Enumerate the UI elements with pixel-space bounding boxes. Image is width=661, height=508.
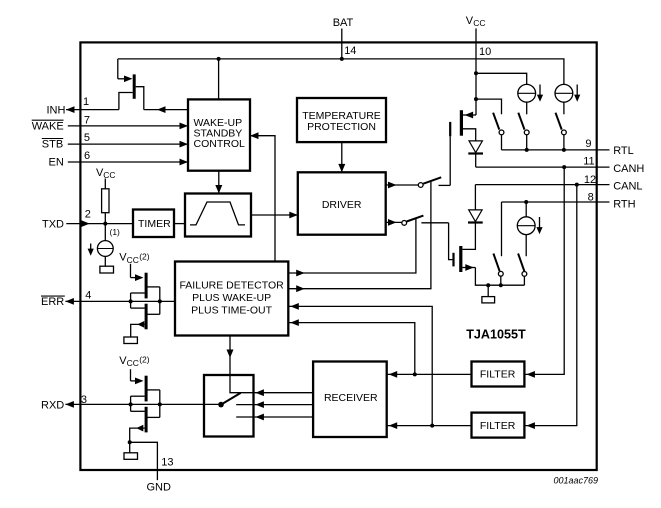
ground symbol ERR stage (124, 337, 137, 344)
switch S8 mux selector (218, 393, 241, 408)
svg-text:PROTECTION: PROTECTION (307, 121, 376, 133)
outer IC boundary box (80, 42, 596, 470)
junction S5 on RTL rail (562, 148, 566, 152)
wire D1 to CANH rail (475, 154, 477, 168)
svg-text:STB: STB (42, 139, 63, 151)
wire TXD node to current source (104, 224, 106, 241)
wire EN pin line with arrow (68, 159, 188, 166)
junction RXD ground branch (128, 440, 132, 444)
svg-text:3: 3 (81, 394, 87, 406)
wire INH pin line (66, 106, 119, 113)
svg-text:GND: GND (147, 481, 172, 493)
wire RTH to current source I4 (525, 202, 527, 217)
svg-text:TXD: TXD (42, 218, 64, 230)
wire S1 to Q2 gate (449, 136, 451, 185)
ground symbol TXD source (100, 266, 114, 273)
wire FD output to S2 lever with arrow (288, 219, 416, 277)
svg-text:FAILURE DETECTOR: FAILURE DETECTOR (179, 279, 284, 291)
junction CANH filter tap (562, 165, 566, 169)
current source I4 on RTH (517, 217, 535, 235)
svg-text:CC: CC (473, 18, 485, 28)
wire ERR node line (65, 298, 175, 305)
wire wake-up to slew block with arrow (215, 171, 222, 194)
current source I2 (518, 84, 536, 102)
wire STB pin line with arrow (68, 141, 188, 148)
junction FD CANH sense tap (413, 372, 417, 376)
svg-text:RTH: RTH (613, 198, 635, 210)
svg-text:TIMER: TIMER (138, 218, 171, 230)
svg-text:CONTROL: CONTROL (194, 138, 245, 150)
wire wake-up block top feed (218, 59, 220, 100)
wire RXD node line (65, 401, 221, 408)
wire temp protection to driver with arrow (338, 142, 345, 172)
wire CANL to filter2 with arrow (524, 185, 576, 429)
transistor Q1 INH driver (118, 59, 144, 110)
svg-text:1: 1 (83, 96, 89, 108)
transistor Q2 CANH high-side (450, 110, 476, 141)
block DRIVER (298, 172, 386, 234)
node VCC(2) label RXD (119, 355, 150, 369)
svg-text:(2): (2) (139, 355, 150, 365)
wire VCC to resistor (104, 179, 106, 189)
wire VCC to current source I2 (476, 73, 527, 84)
svg-text:PLUS WAKE-UP: PLUS WAKE-UP (192, 292, 271, 304)
wire mux input bottom with arrow (236, 414, 313, 421)
arrow current direction I1 (88, 244, 94, 256)
block FILTER 1 (472, 362, 525, 387)
junction VCC branch lower (474, 97, 478, 101)
wire TIMER to slew block (174, 223, 185, 225)
svg-text:CANL: CANL (613, 181, 642, 193)
wire CANH rail pin 11 (476, 166, 610, 168)
wire TXD pin line with arrow (66, 220, 133, 227)
svg-text:FILTER: FILTER (480, 369, 516, 381)
svg-text:001aac769: 001aac769 (553, 475, 598, 485)
switch S5 on RTL (556, 113, 567, 150)
junction ground tap (486, 283, 490, 287)
svg-text:EN: EN (49, 157, 64, 169)
wire failure-detector to wake-up feedback with arrow (250, 132, 275, 261)
junction CANL filter tap (575, 183, 579, 187)
switch S7 on RTH (518, 254, 527, 286)
wire I4 to switch S7 contact (525, 235, 527, 257)
wire ground stem (487, 285, 489, 296)
wire Q3 source to ground rail (475, 268, 524, 286)
switch S2 driver CANL (402, 216, 449, 226)
wire CANL sense into FD with arrow (288, 303, 432, 426)
svg-text:CC: CC (127, 358, 139, 368)
wire filter1 to receiver with arrow (387, 371, 472, 378)
switch S1 driver CANH (418, 177, 450, 187)
wire FD to mux control with arrow (227, 336, 241, 393)
junction wake-up feed (217, 57, 221, 61)
wire VCC pin 10 stem (475, 28, 477, 73)
junction TXD node (103, 222, 107, 226)
svg-text:(2): (2) (139, 251, 150, 261)
diode D1 CANH (468, 141, 483, 154)
wire VCC vertical to Q2 drain (475, 73, 477, 115)
wire RTL rail pin 9 (502, 149, 610, 151)
wire BAT pin 14 stem (341, 29, 343, 59)
wire WAKE pin line with arrow (68, 123, 188, 130)
node STB label with overline (42, 139, 63, 151)
wire slew block to driver with arrow (251, 212, 298, 219)
block RECEIVER (313, 362, 387, 438)
arrow current direction I2 (537, 85, 543, 102)
transistor Q3 CANL low-side (454, 246, 476, 272)
junction FD CANL sense tap (430, 424, 434, 428)
wire CANH to filter1 with arrow (524, 167, 564, 378)
transistor pair Q5 RXD push-pull (130, 369, 160, 453)
wire VCC branch to switch S3 contact (476, 99, 502, 114)
wire CANL rail to diode D2 (474, 185, 476, 210)
wire S2 to Q3 gate (449, 223, 453, 260)
wire RTH rail to switch S6 contact (501, 202, 503, 256)
block FAILURE DETECTOR (175, 262, 288, 336)
switch S4 on RTL (518, 113, 529, 150)
ground symbol RXD stage (124, 453, 138, 460)
svg-text:CC: CC (127, 255, 139, 265)
current source I3 wake-up (555, 84, 573, 102)
node VCC label top (466, 15, 486, 28)
svg-text:8: 8 (588, 191, 594, 203)
svg-text:RXD: RXD (41, 399, 64, 411)
transistor pair Q4 ERR push-pull (131, 264, 160, 337)
resistor R1 (102, 189, 109, 213)
wire RTH rail pin 8 (502, 201, 610, 203)
block FILTER 2 (472, 413, 525, 438)
svg-text:RTL: RTL (613, 145, 634, 157)
wire mux input top with arrow (237, 389, 313, 396)
junction RXD node left (129, 402, 133, 406)
svg-text:WAKE: WAKE (32, 120, 64, 132)
junction VCC branch upper (474, 71, 478, 75)
wire BAT rail horizontal (118, 59, 564, 85)
diode D2 CANL (468, 210, 483, 223)
junction RXD node right (158, 402, 162, 406)
current source I1 on TXD (97, 241, 113, 257)
wire CANH sense into FD with arrow (288, 319, 415, 374)
svg-text:6: 6 (84, 150, 90, 162)
svg-text:10: 10 (479, 46, 491, 58)
svg-text:INH: INH (47, 104, 66, 116)
junction ERR node right (158, 299, 162, 303)
svg-text:RECEIVER: RECEIVER (324, 392, 378, 404)
svg-text:CANH: CANH (613, 163, 644, 175)
arrow current direction I3 (574, 85, 580, 102)
block slew-rate symbol (185, 194, 251, 237)
wire CANL rail pin 12 (475, 184, 609, 186)
node WAKE label with overline (32, 120, 64, 132)
wire wakeup-to-Q1 with arrow (144, 106, 188, 113)
svg-text:4: 4 (85, 290, 91, 302)
svg-text:9: 9 (585, 138, 591, 150)
node VCC label above resistor (96, 167, 116, 180)
svg-text:13: 13 (161, 456, 173, 468)
junction S4 on RTL rail (525, 148, 529, 152)
svg-text:BAT: BAT (333, 17, 354, 29)
svg-text:11: 11 (583, 155, 594, 167)
node ERR label with overline (41, 296, 65, 308)
svg-text:(1): (1) (110, 227, 121, 237)
svg-text:DRIVER: DRIVER (322, 199, 362, 211)
svg-text:7: 7 (84, 115, 90, 127)
block TEMPERATURE PROTECTION (297, 98, 386, 142)
svg-text:TJA1055T: TJA1055T (466, 328, 526, 342)
wire D2 to Q3 drain (462, 223, 475, 250)
switch S6 on RTH (493, 254, 503, 286)
wire GND pin 13 (130, 442, 158, 480)
wire mux input middle with arrow (236, 401, 313, 408)
block output mux (204, 375, 254, 437)
block TIMER (133, 210, 174, 238)
node VCC(2) label ERR (119, 251, 150, 265)
wire filter2 to receiver with arrow (387, 422, 472, 429)
wire FD output to S1 lever with arrow (288, 181, 431, 292)
svg-text:12: 12 (584, 174, 596, 186)
wire I2 to switch S4 contact (526, 102, 528, 114)
svg-text:FILTER: FILTER (480, 420, 516, 432)
arrow current direction I4 (536, 217, 542, 234)
svg-text:PLUS TIME-OUT: PLUS TIME-OUT (191, 305, 272, 317)
junction ERR node left (129, 299, 133, 303)
svg-text:ERR: ERR (41, 296, 64, 308)
svg-text:14: 14 (344, 45, 356, 57)
junction BAT rail (340, 57, 344, 61)
svg-text:2: 2 (85, 209, 91, 221)
junction RTH current source tap (524, 200, 528, 204)
wire resistor to TXD node (104, 213, 106, 224)
wire driver upper output with arrow (386, 182, 419, 189)
wire I1 to ground (104, 256, 106, 266)
wire driver lower output with arrow (386, 219, 402, 226)
wire I3 to switch S5 contact (563, 102, 565, 114)
ground symbol output stage (482, 297, 495, 303)
switch S3 on RTL (493, 113, 504, 150)
junction switch S6 tail (499, 283, 503, 287)
node BAT label (333, 17, 354, 29)
svg-text:5: 5 (84, 132, 90, 144)
block WAKE-UP STANDBY CONTROL (188, 99, 250, 170)
